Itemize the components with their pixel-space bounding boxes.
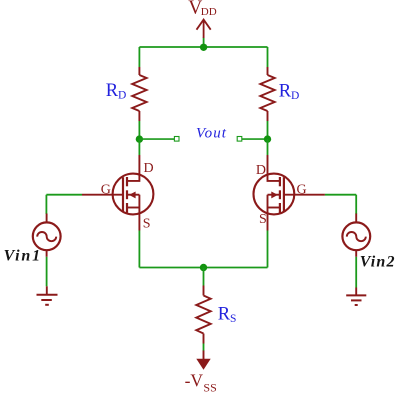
svg-text:S: S <box>143 217 151 232</box>
svg-text:DD: DD <box>201 6 217 18</box>
wire right drain <box>267 139 269 155</box>
node right drain <box>264 135 271 142</box>
svg-text:D: D <box>256 163 266 178</box>
resistor RD (left) <box>132 67 146 121</box>
source V2 pin top <box>355 214 357 223</box>
wire right top vertical <box>267 47 269 67</box>
transistor M1 (left NMOS) <box>82 155 153 231</box>
source V1 pin bottom <box>46 250 48 257</box>
resistor RS <box>196 286 210 344</box>
svg-text:R: R <box>279 82 292 102</box>
svg-text:-V: -V <box>185 371 204 391</box>
wire left resistor to drain node <box>138 121 140 139</box>
wire left source down <box>138 231 140 268</box>
wire VDD stub <box>203 38 205 48</box>
svg-text:G: G <box>101 183 111 198</box>
wire left top vertical <box>138 47 140 67</box>
svg-text:D: D <box>118 90 126 102</box>
source V1 pin top <box>46 214 48 223</box>
ground left <box>37 286 58 305</box>
wire V2 to ground <box>355 257 357 288</box>
node VDD junction <box>200 44 207 51</box>
wire right gate corner down <box>355 195 357 214</box>
svg-text:D: D <box>291 90 299 102</box>
wire right gate <box>325 194 356 196</box>
wire left gate <box>46 194 82 196</box>
wire bottom rail <box>139 267 267 269</box>
source V2 pin bottom <box>355 250 357 257</box>
source V2 (AC) <box>342 222 370 250</box>
wire V1 to ground <box>46 257 48 287</box>
wire tail to RS <box>203 268 205 286</box>
wire right source down <box>267 231 269 268</box>
svg-text:S: S <box>230 313 236 325</box>
wire right resistor to drain node <box>267 121 269 139</box>
svg-text:Vin2: Vin2 <box>360 253 396 270</box>
node left drain <box>136 135 143 142</box>
svg-text:Vin1: Vin1 <box>4 247 42 264</box>
power VDD arrow <box>197 20 211 38</box>
port square right <box>237 137 242 142</box>
resistor RD (right) <box>260 67 274 121</box>
svg-text:SS: SS <box>203 381 216 395</box>
wire left drain <box>138 139 140 155</box>
svg-text:Vout: Vout <box>196 126 227 142</box>
wire top rail <box>139 46 267 48</box>
svg-text:G: G <box>297 183 307 198</box>
ground right <box>346 288 366 306</box>
source V1 (AC) <box>33 222 61 250</box>
power -VSS arrow <box>196 351 210 370</box>
node tail junction <box>200 264 207 271</box>
wire RS to VSS <box>203 344 205 352</box>
svg-text:R: R <box>218 304 231 324</box>
wire Vout stub right <box>242 138 268 140</box>
transistor M2 (right NMOS) <box>254 155 325 231</box>
wire Vout stub left <box>139 138 174 140</box>
svg-text:S: S <box>259 212 267 227</box>
svg-text:R: R <box>106 81 119 101</box>
port square left <box>174 137 179 142</box>
wire left gate corner down <box>45 195 47 214</box>
svg-text:D: D <box>144 161 154 176</box>
